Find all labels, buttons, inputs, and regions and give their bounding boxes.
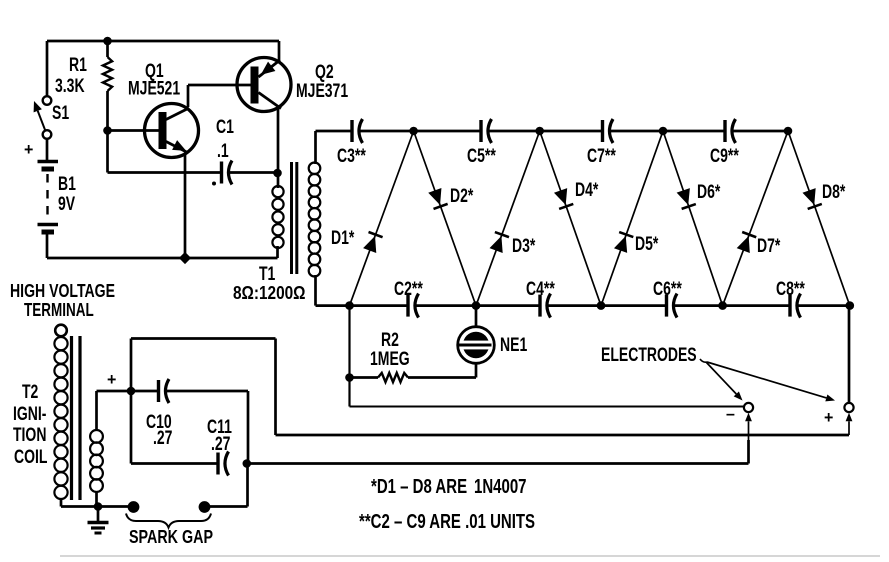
node C11 junction <box>243 459 252 468</box>
node ground junction <box>94 502 103 511</box>
capacitor C4 <box>526 278 555 318</box>
spark gap electrode left <box>128 501 140 513</box>
wire arrow to plus electrode <box>846 413 853 435</box>
wire multiplier right output down <box>848 306 851 403</box>
transistor Q2 MJE371 <box>237 58 348 112</box>
svg-text:C9**: C9** <box>710 145 739 167</box>
wire C10 right side down <box>247 391 250 464</box>
terminal high voltage <box>10 281 115 336</box>
battery B1 <box>24 141 76 232</box>
wire diagonal segment 3 <box>476 131 540 306</box>
wire diagonal segment 5 <box>601 131 663 306</box>
wire junction down to spark gap <box>210 464 248 507</box>
diode D6 1N4007 <box>676 181 721 209</box>
note capacitors <box>359 510 535 533</box>
capacitor C1 <box>212 116 277 186</box>
wire C11 junction to electrode line <box>247 462 749 465</box>
svg-text:C7**: C7** <box>587 145 616 167</box>
svg-text:T1: T1 <box>259 263 275 285</box>
svg-text:1MEG: 1MEG <box>370 348 410 370</box>
svg-text:COIL: COIL <box>14 446 47 468</box>
wire diagonal segment 1 <box>350 131 414 306</box>
wire Q1 emitter <box>184 154 187 259</box>
svg-text:TION: TION <box>13 424 46 446</box>
spark gap electrode right <box>199 501 211 513</box>
svg-text:IGNI-: IGNI- <box>13 403 46 425</box>
svg-text:*D1 – D8 ARE: *D1 – D8 ARE <box>371 475 467 498</box>
svg-text:ELECTRODES: ELECTRODES <box>601 344 697 366</box>
wire diagonal segment 7 <box>723 131 788 306</box>
wire C10 top loop <box>131 339 849 436</box>
svg-text:D2*: D2* <box>450 185 474 207</box>
wire C11 row <box>131 391 217 464</box>
svg-text:D7*: D7* <box>757 235 781 257</box>
svg-text:9V: 9V <box>58 193 76 215</box>
node Q1 base junction <box>103 126 112 135</box>
note diodes <box>371 475 527 498</box>
svg-text:C2**: C2** <box>394 278 423 300</box>
wire base node down to C1 <box>108 131 221 173</box>
svg-text:1N4007: 1N4007 <box>474 475 527 498</box>
svg-text:T2: T2 <box>22 381 38 403</box>
svg-text:B1: B1 <box>58 173 76 195</box>
wire Q1 base <box>108 129 160 132</box>
resistor R2 1MEG <box>350 329 477 382</box>
brace spark gap <box>126 514 213 548</box>
label electrodes <box>601 344 835 401</box>
svg-text:D8*: D8* <box>822 181 846 203</box>
wire diagonal segment 8 <box>788 131 850 306</box>
svg-text:SPARK GAP: SPARK GAP <box>129 527 213 548</box>
wire Q2 collector down <box>277 108 280 189</box>
transformer T2 ignition coil <box>13 336 103 507</box>
neon lamp NE1 <box>457 306 527 378</box>
capacitor C5 <box>467 119 496 167</box>
node T2 primary plus junction <box>107 371 135 396</box>
node bottom <box>472 301 481 310</box>
diode D3 1N4007 <box>489 232 536 257</box>
capacitor C6 <box>653 278 682 318</box>
svg-text:+: + <box>24 141 33 159</box>
diode D7 1N4007 <box>736 232 781 257</box>
resistor R1 <box>55 41 112 131</box>
wire bottom rail <box>47 235 278 259</box>
wire T2 bottom rail <box>61 505 129 508</box>
svg-text:MJE371: MJE371 <box>296 80 348 102</box>
svg-text:TERMINAL: TERMINAL <box>24 300 94 321</box>
capacitor C7 <box>587 119 616 167</box>
transformer T1 <box>233 131 320 306</box>
node top <box>659 127 668 136</box>
switch S1 <box>34 96 70 139</box>
electrode minus <box>726 403 753 423</box>
svg-text:3.3K: 3.3K <box>55 75 85 97</box>
capacitor C10 <box>131 379 248 449</box>
node top rail junction <box>103 37 112 46</box>
svg-text:**C2 – C9 ARE .01 UNITS: **C2 – C9 ARE .01 UNITS <box>359 510 535 533</box>
wire T2 primary to node <box>97 391 132 431</box>
svg-text:C5**: C5** <box>467 145 496 167</box>
diode D2 1N4007 <box>428 185 474 209</box>
node bottom <box>345 301 354 310</box>
ground <box>88 507 109 534</box>
scan artifact <box>60 555 880 557</box>
svg-text:D1*: D1* <box>331 227 355 249</box>
transistor Q1 MJE521 <box>128 60 199 158</box>
svg-text:MJE521: MJE521 <box>128 77 180 99</box>
svg-text:C3**: C3** <box>337 145 366 167</box>
wire diagonal segment 6 <box>663 131 723 306</box>
svg-text:HIGH VOLTAGE: HIGH VOLTAGE <box>10 281 115 302</box>
electrode plus <box>824 403 854 427</box>
svg-text:8Ω:1200Ω: 8Ω:1200Ω <box>233 283 306 304</box>
capacitor C8 <box>776 278 805 318</box>
diode D4 1N4007 <box>554 179 599 209</box>
svg-text:C4**: C4** <box>526 278 555 300</box>
svg-text:D6*: D6* <box>697 181 721 203</box>
svg-text:NE1: NE1 <box>500 334 527 356</box>
wire diagonal segment 4 <box>540 131 601 306</box>
node bottom <box>718 301 727 310</box>
node bottom <box>597 301 606 310</box>
svg-text:C6**: C6** <box>653 278 682 300</box>
svg-text:R1: R1 <box>69 54 87 76</box>
svg-text:D5*: D5* <box>635 233 659 255</box>
wire arrow to minus electrode <box>745 413 752 464</box>
svg-text:–: – <box>726 405 735 423</box>
diode D1 1N4007 <box>331 227 383 253</box>
capacitor C2 <box>394 278 423 318</box>
svg-text:.27: .27 <box>211 433 230 455</box>
svg-text:S1: S1 <box>52 102 69 124</box>
diode D5 1N4007 <box>613 232 658 254</box>
svg-text:C1: C1 <box>216 116 234 138</box>
node C1/T1 junction <box>273 169 282 178</box>
capacitor C3 <box>337 119 366 167</box>
svg-text:C8**: C8** <box>776 278 805 300</box>
diode D8 1N4007 <box>802 181 846 209</box>
svg-text:.1: .1 <box>217 140 229 162</box>
wire multiplier bottom rail <box>316 304 850 307</box>
node R2 junction <box>345 373 354 382</box>
svg-text:+: + <box>107 371 116 389</box>
wire top rail <box>47 41 279 96</box>
node top <box>784 127 793 136</box>
capacitor C11 <box>207 416 232 476</box>
wire multiplier top rail <box>316 130 789 133</box>
svg-text:+: + <box>824 409 833 427</box>
node emitter junction <box>179 252 191 264</box>
node top <box>409 127 418 136</box>
wire diagonal segment 2 <box>414 131 476 306</box>
svg-text:D4*: D4* <box>575 179 599 201</box>
wire <box>46 139 49 160</box>
capacitor C9 <box>710 119 739 167</box>
node bottom <box>846 301 855 310</box>
wire left multiplier output down <box>350 306 745 407</box>
wire Q1 collector to Q2 base <box>188 85 251 107</box>
node top <box>535 127 544 136</box>
wire Q2 emitter to rail <box>278 41 281 62</box>
svg-text:D3*: D3* <box>512 235 536 257</box>
svg-text:.27: .27 <box>153 427 172 449</box>
